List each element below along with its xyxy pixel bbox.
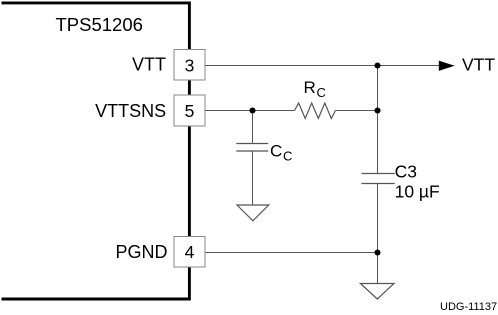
svg-text:4: 4	[185, 242, 195, 262]
wire vertical VTT node down to C3 top	[377, 66, 379, 174]
svg-text:VTTSNS: VTTSNS	[95, 101, 166, 121]
svg-text:5: 5	[185, 101, 195, 121]
pin 4 box	[174, 237, 205, 268]
resistor RC	[295, 78, 336, 119]
wire PGND pin4 to node	[205, 252, 378, 254]
svg-text:10 µF: 10 µF	[395, 182, 440, 202]
svg-text:R: R	[304, 78, 316, 97]
svg-text:C: C	[317, 85, 326, 100]
node junction VTT	[374, 62, 380, 68]
svg-text:TPS51206: TPS51206	[56, 14, 143, 35]
svg-text:C: C	[283, 149, 292, 164]
svg-text:3: 3	[185, 56, 195, 76]
ground symbol below C3	[360, 284, 394, 300]
svg-text:C3: C3	[395, 161, 417, 181]
capacitor C3	[362, 161, 440, 201]
svg-text:C: C	[270, 142, 282, 161]
wire node to capacitor CC	[252, 111, 254, 144]
pin 5 box	[174, 95, 205, 126]
svg-text:UDG-11137: UDG-11137	[440, 301, 497, 313]
wire capacitor CC to ground	[252, 151, 254, 205]
capacitor CC	[236, 142, 292, 164]
svg-text:VTT: VTT	[132, 55, 166, 75]
node junction RC-C3	[374, 107, 380, 113]
node junction PGND	[374, 249, 380, 255]
node junction RC-CC	[249, 107, 255, 113]
wire VTT pin3 to arrow	[205, 65, 440, 67]
arrow VTT output	[439, 55, 496, 75]
ground symbol below CC	[237, 205, 269, 221]
wire resistor right to node	[336, 110, 378, 112]
svg-text:PGND: PGND	[115, 242, 167, 262]
IC TPS51206 outline	[2, 3, 190, 299]
IC U1 TPS51206	[2, 3, 190, 299]
svg-text:VTT: VTT	[462, 55, 495, 75]
wire C3 bottom to ground	[377, 184, 379, 284]
wire VTTSNS pin5 to resistor	[205, 110, 295, 112]
pin 3 box	[174, 50, 205, 81]
